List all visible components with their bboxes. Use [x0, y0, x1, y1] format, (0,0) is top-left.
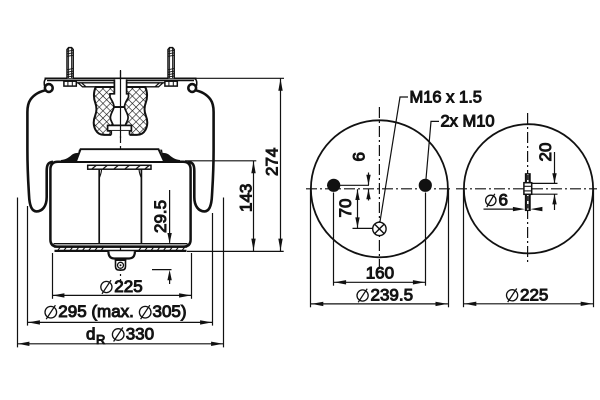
M10 hole right: [419, 179, 432, 192]
bottom view horizontal centerline: [456, 188, 597, 190]
air fitting M16: [373, 222, 386, 235]
svg-text:70: 70: [336, 199, 355, 218]
dim phi239.5: [311, 189, 449, 307]
centerline overlay through bumper: [120, 71, 122, 141]
bumper bottom white gap: [111, 131, 129, 136]
dim 29.5: [152, 190, 172, 284]
dim 70: [353, 189, 373, 228]
bellows clamp bead left: [61, 150, 81, 163]
top view horizontal centerline: [306, 188, 453, 190]
bellows outer wall right: [188, 90, 214, 211]
svg-text:225: 225: [520, 285, 548, 304]
center stud shaft: [526, 174, 531, 211]
svg-text:M16 x 1.5: M16 x 1.5: [410, 89, 482, 107]
svg-text:225: 225: [114, 277, 142, 296]
top plate right curl: [195, 79, 197, 87]
goblet closing line: [114, 106, 125, 108]
dim phi295 max305: [28, 206, 213, 326]
dim 20: [532, 152, 558, 210]
svg-text:20: 20: [536, 143, 555, 162]
svg-text:330: 330: [126, 325, 154, 344]
dim phi225 right: [464, 189, 594, 307]
piston flange bar: [88, 165, 151, 169]
top plate surface: [45, 78, 197, 80]
stud left washer: [64, 81, 76, 86]
rubber bumper hatched body: [94, 87, 147, 135]
svg-text:R: R: [96, 332, 105, 347]
svg-text:143: 143: [237, 184, 256, 212]
svg-text:29.5: 29.5: [151, 200, 170, 233]
stud right washer: [165, 81, 177, 86]
piston top platform: [76, 149, 165, 162]
dim dR phi330: [17, 198, 224, 348]
piston bottom plate: [54, 243, 188, 245]
dim phi225 bottom: [52, 253, 192, 299]
centerline left view: [120, 70, 122, 283]
svg-text:6: 6: [499, 191, 508, 210]
svg-text:239.5: 239.5: [371, 286, 414, 305]
leader 2x M10: [426, 121, 439, 179]
dim 160: [334, 193, 426, 286]
center stud nut: [524, 183, 532, 195]
bellows outer wall left: [27, 90, 53, 211]
bellows bead ball left: [45, 84, 53, 92]
bottom tab dark band: [115, 258, 126, 261]
bottom view vertical centerline: [527, 113, 529, 265]
piston inner tube walls: [99, 169, 141, 243]
svg-text:305): 305): [153, 302, 187, 321]
leader M16: [380, 97, 408, 222]
dim 6: [366, 173, 370, 201]
svg-text:2x M10: 2x M10: [441, 113, 495, 131]
dim phi6: [484, 207, 543, 211]
M10 hole left: [327, 179, 340, 192]
bottom view circle: [464, 124, 593, 253]
bumper metal insert: [110, 107, 128, 125]
stud left: [67, 48, 73, 79]
hole axis line: [327, 184, 369, 186]
bottom tab hole: [118, 262, 124, 268]
bellows bead ball right: [188, 84, 196, 92]
bumper washer band: [108, 125, 132, 130]
svg-text:274: 274: [263, 148, 282, 176]
bottom center cup: [108, 251, 134, 258]
bottom plate hatch ticks: [58, 247, 185, 251]
top view vertical centerline: [378, 107, 380, 269]
svg-text:d: d: [86, 325, 95, 344]
svg-text:6: 6: [350, 152, 369, 161]
bumper centre column: [110, 79, 129, 107]
bottom tab: [116, 259, 126, 271]
svg-text:160: 160: [366, 264, 394, 283]
svg-text:295 (max.: 295 (max.: [58, 302, 134, 321]
bellows clamp bead right: [160, 150, 180, 163]
dim 143: [185, 161, 284, 252]
top plate left curl: [44, 79, 46, 87]
flange bar hatch ticks: [92, 166, 149, 169]
dim 274: [195, 78, 284, 251]
plate pressed profile: [63, 81, 178, 83]
piston body: [50, 162, 190, 247]
top view circle: [311, 120, 448, 257]
stud right: [168, 48, 174, 79]
